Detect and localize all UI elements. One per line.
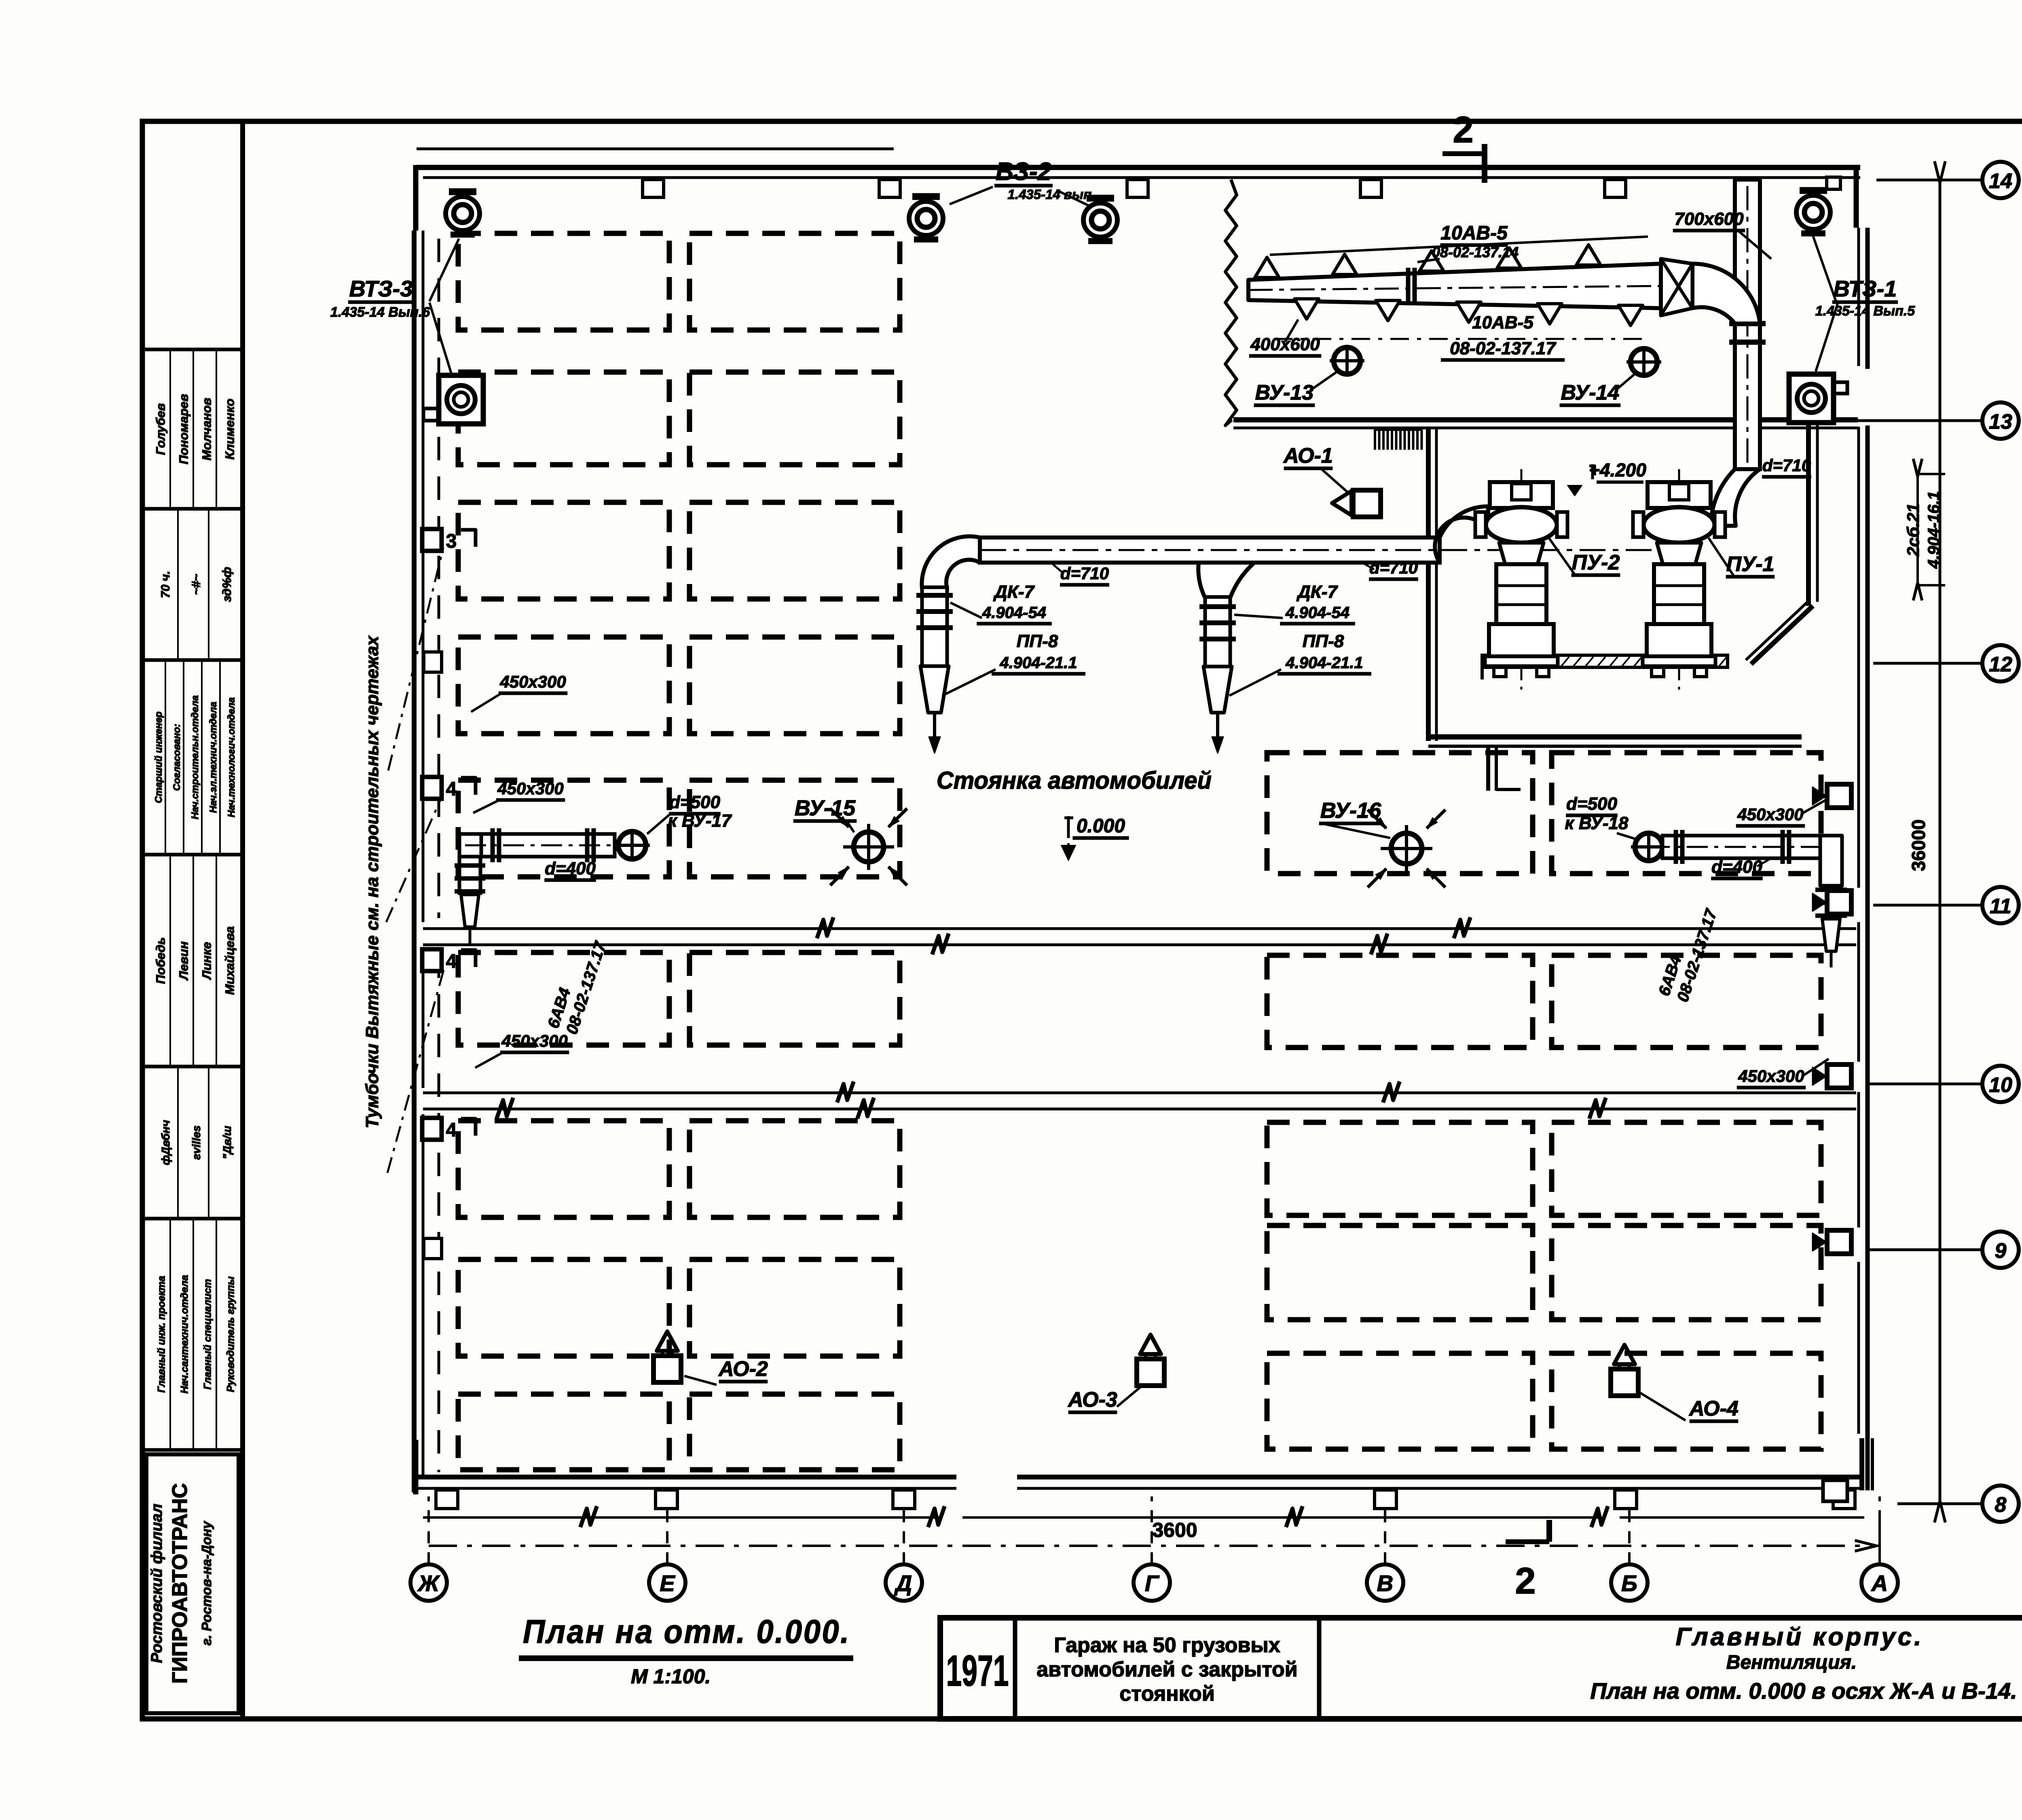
axis 12 circle	[1982, 645, 2019, 681]
left drop cone	[461, 895, 479, 927]
stamp strip line	[208, 510, 209, 658]
PU base	[1647, 624, 1711, 656]
break mark lane2	[1383, 1081, 1400, 1103]
supply diffuser triangle down	[1457, 302, 1481, 322]
duct flange	[497, 828, 501, 862]
stamp organization box	[146, 1454, 239, 1713]
svg-text:Нач.технологич.отдела: Нач.технологич.отдела	[226, 697, 237, 817]
parking stall row	[458, 502, 669, 599]
svg-text:Руководитель группы: Руководитель группы	[225, 1276, 236, 1392]
break mark lane1	[817, 917, 833, 938]
title block frame	[940, 1618, 2022, 1719]
svg-text:автомобилей с закрытой: автомобилей с закрытой	[1036, 1658, 1298, 1681]
duct flange	[1729, 321, 1766, 326]
top-left corner bracket	[413, 165, 419, 231]
svg-text:700х600: 700х600	[1674, 209, 1744, 229]
svg-text:ВУ-15: ВУ-15	[795, 796, 856, 820]
fan VTZ-3 square (left wall)	[439, 375, 483, 424]
stamp column right edge	[240, 121, 245, 1719]
svg-text:0.000: 0.000	[1077, 815, 1125, 837]
supply diffuser triangle down	[1538, 304, 1562, 324]
duct stub above VTZ-1	[1827, 177, 1840, 189]
parking stall row	[1267, 955, 1533, 1048]
axis Е line	[666, 1496, 668, 1564]
wall cabinet right	[1827, 784, 1851, 808]
svg-text:Клименко: Клименко	[222, 399, 237, 460]
svg-text:ПУ-1: ПУ-1	[1726, 552, 1775, 576]
parking stall row	[690, 637, 900, 734]
svg-text:АО-3: АО-3	[1067, 1388, 1117, 1412]
svg-text:1.435-14 Вып.6: 1.435-14 Вып.6	[330, 305, 430, 320]
stamp strip line	[192, 351, 194, 507]
svg-text:АО-2: АО-2	[718, 1357, 768, 1381]
stamp strip line	[192, 1220, 194, 1448]
stamp strip line	[219, 662, 221, 853]
svg-text:ДК-7: ДК-7	[1296, 582, 1338, 602]
svg-text:9: 9	[1995, 1239, 2007, 1263]
break mark	[928, 1506, 945, 1527]
parking stall row	[458, 1259, 669, 1356]
svg-text:АО-1: АО-1	[1283, 444, 1333, 468]
louver AO-1	[1353, 490, 1381, 517]
parking stall row	[458, 1394, 669, 1470]
bottom wall pilasters	[436, 1490, 458, 1509]
PU motor box	[1648, 482, 1711, 508]
svg-text:1971: 1971	[946, 1646, 1009, 1695]
parking stall row	[690, 780, 900, 877]
exhaust outlet VU-16	[1391, 833, 1422, 864]
wall cabinet right	[1827, 1064, 1851, 1088]
svg-text:2сб.21: 2сб.21	[1904, 503, 1923, 557]
exhaust outlet VU-15	[854, 832, 884, 862]
axis А circle	[1861, 1564, 1898, 1601]
parking stall row	[458, 1121, 669, 1217]
svg-text:3600: 3600	[1152, 1519, 1197, 1541]
PU cylinder	[1496, 564, 1546, 624]
svg-text:Левин: Левин	[176, 941, 190, 980]
wall cabinet right	[1827, 891, 1851, 914]
axis 10 leader	[1868, 1083, 1982, 1086]
svg-text:36000: 36000	[1908, 819, 1929, 871]
stamp strip line	[216, 351, 217, 507]
upper diffuser line	[1270, 237, 1648, 255]
break mark lane2	[857, 1098, 874, 1119]
stamp strip line	[177, 1068, 179, 1217]
svg-text:Нач.эл.технич.отдела: Нач.эл.технич.отдела	[208, 702, 219, 813]
parking stall row	[690, 952, 900, 1045]
stamp divider	[142, 1217, 243, 1221]
svg-text:d=400: d=400	[1711, 857, 1763, 877]
svg-text:ВУ-16: ВУ-16	[1320, 798, 1381, 823]
axis Д line	[903, 1496, 905, 1564]
left elbow of main duct	[922, 536, 980, 588]
louver AO-2	[654, 1356, 681, 1382]
parking stall row	[690, 372, 900, 465]
svg-text:Е: Е	[660, 1570, 675, 1596]
title block divider	[1317, 1618, 1322, 1719]
svg-text:Главный корпус.: Главный корпус.	[1676, 1623, 1924, 1651]
svg-text:гvilles: гvilles	[190, 1126, 203, 1160]
svg-text:стоянкой: стоянкой	[1119, 1682, 1215, 1706]
bellows flange	[916, 593, 953, 598]
parking stall row	[690, 1259, 900, 1356]
stamp strip line	[208, 1068, 209, 1217]
svg-text:Стоянка автомобилей: Стоянка автомобилей	[937, 767, 1212, 794]
PU cone	[1657, 543, 1701, 564]
break mark lane1	[932, 933, 949, 954]
left drop cone PP-8	[920, 666, 949, 713]
parking stall row	[1267, 1353, 1533, 1449]
main horizontal duct d710	[980, 538, 1440, 563]
parking stall row	[1552, 1122, 1821, 1215]
svg-text:3: 3	[446, 531, 457, 552]
elbow into PU-2	[1435, 506, 1488, 563]
wall cabinet left 4	[422, 1118, 442, 1140]
bracket dimension 2sb21	[1916, 474, 1919, 585]
ceiling outlet VU-14	[1631, 349, 1657, 375]
svg-text:Согласовано:: Согласовано:	[171, 724, 182, 791]
duct flange	[1781, 830, 1785, 864]
middle drop arrow	[1216, 713, 1219, 744]
svg-text:М 1:100.: М 1:100.	[631, 1665, 711, 1688]
louver AO-4	[1611, 1369, 1638, 1396]
svg-text:Молчанов: Молчанов	[199, 398, 214, 461]
left duct d400	[481, 834, 615, 857]
parking stall row	[1267, 753, 1533, 874]
parking stall row	[458, 952, 669, 1045]
break mark lane1	[1371, 933, 1387, 954]
axis Б circle	[1611, 1564, 1648, 1601]
axis 11 leader	[1873, 904, 1982, 907]
stamp strip line	[169, 856, 171, 1065]
axis 8 circle	[1982, 1486, 2019, 1522]
svg-text:4.904-21.1: 4.904-21.1	[1285, 654, 1363, 672]
svg-text:ВЗ-2: ВЗ-2	[996, 158, 1051, 186]
svg-text:ГИПРОАВТОТРАНС: ГИПРОАВТОТРАНС	[168, 1483, 192, 1684]
tapered duct flanges	[1406, 268, 1411, 305]
svg-text:4.904-54: 4.904-54	[982, 604, 1046, 622]
duct flange	[1680, 830, 1685, 864]
svg-text:4: 4	[446, 779, 457, 800]
left wall	[412, 231, 417, 1492]
svg-text:4.904-21.1: 4.904-21.1	[999, 654, 1077, 672]
left wall elbow	[459, 834, 481, 857]
top-right corner bracket	[1854, 165, 1859, 228]
elevation +4.200	[1591, 464, 1594, 479]
bellows flange	[916, 609, 953, 614]
wall cabinet left 4	[422, 949, 442, 971]
elbow from riser into PU-1	[1711, 469, 1760, 526]
chamber break zigzag edge	[1225, 180, 1237, 425]
top elbow from tapered duct to riser	[1692, 264, 1760, 324]
axis 14 leader	[1876, 179, 1982, 182]
svg-text:10АВ-5: 10АВ-5	[1440, 222, 1508, 244]
stamp strip line	[183, 662, 184, 853]
axis Г circle	[1134, 1564, 1170, 1601]
chamber left inner wall	[1426, 428, 1431, 741]
stamp divider	[142, 348, 243, 351]
parking stall row	[1267, 1122, 1533, 1215]
svg-text:d=710: d=710	[1762, 456, 1811, 475]
axis 9 circle	[1982, 1232, 2019, 1268]
middle drop duct	[1205, 597, 1230, 667]
svg-text:Тумбочки Вытяжные см. на ст: Тумбочки Вытяжные см. на строительных че…	[362, 635, 382, 1128]
svg-text:d=500: d=500	[1566, 794, 1618, 814]
svg-text:+4.200: +4.200	[1589, 459, 1646, 480]
title block divider	[1013, 1618, 1017, 1719]
axis 8 leader	[1897, 1503, 1982, 1505]
stamp divider	[142, 1065, 243, 1069]
parking stall row	[1552, 753, 1821, 874]
svg-text:к ВУ-17: к ВУ-17	[668, 811, 732, 831]
svg-text:Главный инж. проекта: Главный инж. проекта	[156, 1276, 167, 1393]
svg-text:Старший инженер: Старший инженер	[153, 711, 164, 803]
supply diffuser triangle up	[1255, 257, 1279, 277]
wall cabinet left 3	[422, 529, 442, 551]
bellows flange	[1199, 637, 1236, 641]
louver AO-3	[1137, 1359, 1164, 1386]
PU unit axis	[1678, 469, 1680, 690]
duct centerline	[934, 549, 1679, 551]
axis 11 circle	[1982, 887, 2019, 923]
stamp strip line	[169, 351, 171, 507]
svg-text:В: В	[1377, 1570, 1393, 1596]
supply diffuser triangle down	[1376, 301, 1400, 321]
stamp strip line	[201, 662, 203, 853]
svg-text:08-02-137.17: 08-02-137.17	[1450, 339, 1557, 358]
wall cabinet left 4	[422, 777, 442, 799]
supply diffuser triangle up	[1576, 245, 1601, 265]
axis Д circle	[886, 1564, 922, 1601]
fan VZ-2 left (roof)	[912, 193, 940, 200]
top wall pilasters	[643, 180, 664, 197]
svg-text:А: А	[1871, 1570, 1888, 1596]
svg-text:"Дв/ш: "Дв/ш	[221, 1126, 233, 1159]
PU cylinder	[1654, 564, 1704, 624]
top wall	[417, 165, 1860, 170]
left drop duct	[922, 587, 947, 666]
svg-text:14: 14	[1989, 169, 2012, 193]
parking stall row	[690, 502, 900, 599]
stamp divider	[142, 1448, 243, 1452]
svg-text:10: 10	[1989, 1073, 2012, 1097]
svg-text:d=400: d=400	[545, 859, 596, 878]
middle drop elbow	[1198, 563, 1254, 598]
svg-text:ВТЗ-1: ВТЗ-1	[1834, 276, 1897, 301]
svg-text:4.904-16.1: 4.904-16.1	[1925, 491, 1943, 569]
parking stall row	[458, 637, 669, 734]
chamber corner chamfer	[1751, 606, 1813, 664]
right elbow down	[1820, 836, 1842, 886]
drive lane 1 lines	[423, 927, 1856, 930]
parking stall row	[1267, 1225, 1533, 1320]
bottom dimension line	[429, 1545, 1880, 1547]
stamp strip line	[177, 510, 179, 658]
axis Г line	[1151, 1496, 1153, 1564]
svg-text:План на отм. 0.000 в осях Ж-А: План на отм. 0.000 в осях Ж-А и В-14.	[1590, 1678, 2017, 1704]
svg-text:Линке: Линке	[199, 942, 214, 980]
parking stall row	[1552, 1353, 1821, 1449]
svg-text:450х300: 450х300	[1738, 1067, 1804, 1086]
svg-text:зд%ф: зд%ф	[220, 567, 234, 602]
svg-text:10АВ-5: 10АВ-5	[1472, 313, 1533, 332]
bottom wall	[416, 1475, 956, 1479]
parking stall row	[458, 233, 669, 330]
svg-text:d=710: d=710	[1060, 564, 1109, 583]
break mark lane2	[497, 1098, 513, 1119]
break mark lane2	[1589, 1098, 1606, 1119]
svg-text:Голубев: Голубев	[153, 403, 167, 455]
PU base	[1489, 624, 1554, 656]
vertical dimension line 36000	[1939, 180, 1942, 1504]
svg-text:~#~: ~#~	[190, 574, 203, 595]
svg-text:Гараж на 50 грузовых: Гараж на 50 грузовых	[1054, 1634, 1280, 1657]
axis В circle	[1367, 1564, 1403, 1601]
break mark lane2	[837, 1081, 854, 1103]
transition bowtie	[1661, 259, 1692, 315]
right drop cone	[1822, 919, 1840, 951]
svg-text:4: 4	[446, 1120, 457, 1141]
axis 13 leader	[1820, 419, 1982, 422]
PU foot plate	[1643, 656, 1715, 666]
svg-text:Михайцева: Михайцева	[222, 926, 237, 995]
chamber floor wall	[1233, 417, 1858, 423]
stamp strip line	[216, 856, 217, 1065]
tapered supply duct 10AV-5	[1248, 264, 1661, 308]
right wall	[1865, 228, 1870, 369]
bottom-right corner bracket	[1859, 1438, 1864, 1490]
svg-text:Победь: Победь	[153, 937, 167, 984]
svg-text:2: 2	[1453, 109, 1473, 150]
section mark 2 bottom	[1506, 1539, 1549, 1544]
ceiling outlet VU-13	[1334, 347, 1360, 374]
svg-text:ДК-7: ДК-7	[993, 582, 1035, 602]
axis 14 circle	[1982, 162, 2019, 198]
stamp divider	[142, 507, 243, 511]
break mark lane1	[1454, 917, 1470, 938]
section mark 2 top	[1442, 151, 1485, 156]
fan VTZ-3 round (left top)	[449, 188, 476, 195]
middle drop cone PP-8	[1203, 667, 1232, 713]
supply diffuser triangle up	[1497, 248, 1521, 268]
svg-text:11: 11	[1990, 895, 2011, 918]
parking stall row	[458, 372, 669, 465]
break mark	[1591, 1506, 1608, 1527]
label 6AV4 left rotated	[544, 933, 610, 1036]
svg-text:450х300: 450х300	[499, 672, 566, 691]
axis А line	[1878, 1496, 1881, 1564]
duct flange	[1729, 340, 1766, 345]
right duct d400	[1662, 836, 1820, 858]
elevation 0.000	[1067, 816, 1070, 838]
chamber bottom wall	[1428, 734, 1802, 740]
connection circle k VU-17	[618, 832, 646, 859]
stamp strip line	[216, 1220, 217, 1448]
svg-text:450х300: 450х300	[1737, 805, 1804, 824]
lower diffuser dashline	[1274, 338, 1650, 340]
stamp divider	[142, 853, 243, 857]
parking stall row	[690, 1394, 900, 1470]
svg-text:ВУ-13: ВУ-13	[1255, 381, 1314, 404]
chamber right inner wall	[1806, 425, 1811, 606]
PU unit axis	[1521, 469, 1523, 690]
leader dashdot to cabinets	[388, 548, 443, 770]
parking stall row	[458, 780, 669, 877]
wall cabinet right	[1827, 1230, 1851, 1254]
svg-text:2: 2	[1515, 1560, 1536, 1602]
svg-text:Ростовский филиал: Ростовский филиал	[148, 1504, 165, 1663]
duct flange	[1787, 830, 1791, 864]
svg-text:400х600: 400х600	[1250, 334, 1320, 354]
duct flange	[592, 828, 596, 862]
break mark	[580, 1506, 597, 1527]
left drop arrow	[933, 713, 936, 744]
svg-text:d=500: d=500	[669, 792, 721, 812]
connection circle k VU-18	[1635, 833, 1662, 861]
svg-text:ВТЗ-3: ВТЗ-3	[349, 276, 413, 301]
axis Ж circle	[410, 1564, 447, 1601]
leader VZ-2	[950, 187, 993, 204]
parking stall row	[1552, 1225, 1821, 1320]
equipment platform	[1482, 655, 1728, 667]
svg-text:12: 12	[1989, 653, 2012, 676]
PU motor box	[1490, 482, 1553, 508]
svg-text:фДвбнч: фДвбнч	[159, 1120, 172, 1165]
svg-text:Пономарев: Пономарев	[176, 394, 190, 464]
svg-text:Г: Г	[1145, 1570, 1160, 1596]
leader VTZ-1	[1813, 235, 1836, 301]
svg-text:450х300: 450х300	[501, 1031, 568, 1050]
fan VZ-2 right (roof)	[1087, 195, 1114, 202]
bellows flange	[916, 625, 953, 630]
drive lane 2 lines	[423, 1092, 1856, 1094]
parking stall row	[690, 1121, 900, 1217]
bottom-left corner bracket	[413, 1440, 419, 1494]
left drop below elbow	[459, 857, 480, 893]
svg-text:13: 13	[1989, 410, 2012, 434]
parking stall row	[690, 233, 900, 330]
axis В line	[1384, 1496, 1386, 1564]
inner wall dashed line	[438, 239, 440, 918]
axis 13 circle	[1982, 402, 2019, 439]
break mark	[1286, 1506, 1303, 1527]
supply diffuser triangle down	[1618, 305, 1643, 326]
svg-text:70 ч.: 70 ч.	[159, 571, 172, 598]
exterior ground line	[423, 1516, 942, 1519]
label 6AV4 right rotated	[1655, 900, 1721, 1004]
svg-text:Главный специалист: Главный специалист	[202, 1279, 213, 1389]
supply diffuser triangle down	[1294, 299, 1319, 319]
parking stall row	[1552, 955, 1821, 1048]
stamp strip line	[165, 662, 166, 853]
svg-text:ПУ-2: ПУ-2	[1572, 551, 1620, 574]
axis Б line	[1628, 1496, 1631, 1564]
axis 9 leader	[1868, 1249, 1982, 1251]
svg-text:г. Ростов-на-Дону: г. Ростов-на-Дону	[199, 1521, 214, 1646]
svg-text:Вентиляция.: Вентиляция.	[1726, 1652, 1857, 1673]
left wall pilasters	[424, 652, 442, 672]
vertical duct d710	[1735, 180, 1760, 469]
leader VTZ-3	[429, 239, 459, 301]
svg-text:8: 8	[1995, 1493, 2007, 1517]
wall cabinet bottom right	[1823, 1480, 1847, 1501]
duct flange	[1674, 830, 1678, 864]
svg-text:4.904-54: 4.904-54	[1285, 604, 1349, 622]
bellows flange	[1199, 620, 1236, 625]
duct flange	[491, 828, 495, 862]
square fan right wall	[1789, 374, 1834, 423]
svg-text:450х300: 450х300	[497, 779, 564, 798]
